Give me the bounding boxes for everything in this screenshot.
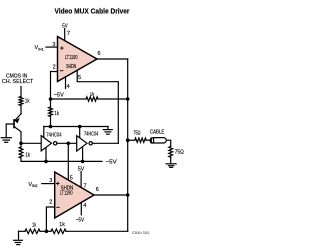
svg-text:4: 4 xyxy=(67,84,70,90)
svg-text:SHDN: SHDN xyxy=(66,64,76,70)
svg-text:IN1: IN1 xyxy=(38,46,44,51)
svg-text:1k: 1k xyxy=(25,98,30,104)
svg-text:74HC04: 74HC04 xyxy=(84,131,98,137)
svg-text:IN2: IN2 xyxy=(32,183,37,188)
svg-text:5V: 5V xyxy=(62,23,68,29)
svg-text:6: 6 xyxy=(96,187,99,193)
svg-text:5: 5 xyxy=(78,75,81,81)
svg-text:CH. SELECT: CH. SELECT xyxy=(2,79,34,85)
svg-text:LT1190 • TA01: LT1190 • TA01 xyxy=(132,231,149,235)
svg-text:7: 7 xyxy=(84,184,87,190)
svg-text:LT1190: LT1190 xyxy=(60,190,73,196)
svg-text:3: 3 xyxy=(52,42,55,48)
svg-text:1k: 1k xyxy=(25,152,30,158)
svg-text:5: 5 xyxy=(70,175,73,181)
svg-text:2: 2 xyxy=(53,64,56,70)
svg-text:6: 6 xyxy=(98,51,101,57)
svg-text:−5V: −5V xyxy=(54,93,64,99)
svg-text:Video MUX Cable Driver: Video MUX Cable Driver xyxy=(55,7,130,16)
svg-text:74HC04: 74HC04 xyxy=(46,132,61,138)
svg-text:1k: 1k xyxy=(32,222,36,228)
svg-text:1k: 1k xyxy=(90,91,95,97)
svg-text:CABLE: CABLE xyxy=(150,130,165,136)
svg-text:3: 3 xyxy=(49,178,52,184)
svg-text:LT1190: LT1190 xyxy=(65,55,78,61)
svg-text:2: 2 xyxy=(49,199,52,205)
svg-text:−5V: −5V xyxy=(106,160,117,166)
svg-text:−5V: −5V xyxy=(76,218,85,224)
svg-text:1k: 1k xyxy=(59,222,65,228)
svg-text:4: 4 xyxy=(83,203,86,209)
svg-text:75Ω: 75Ω xyxy=(133,131,140,137)
svg-text:1k: 1k xyxy=(54,111,59,117)
svg-text:7: 7 xyxy=(67,31,70,37)
svg-text:75Ω: 75Ω xyxy=(175,149,184,155)
svg-text:5V: 5V xyxy=(78,167,85,173)
